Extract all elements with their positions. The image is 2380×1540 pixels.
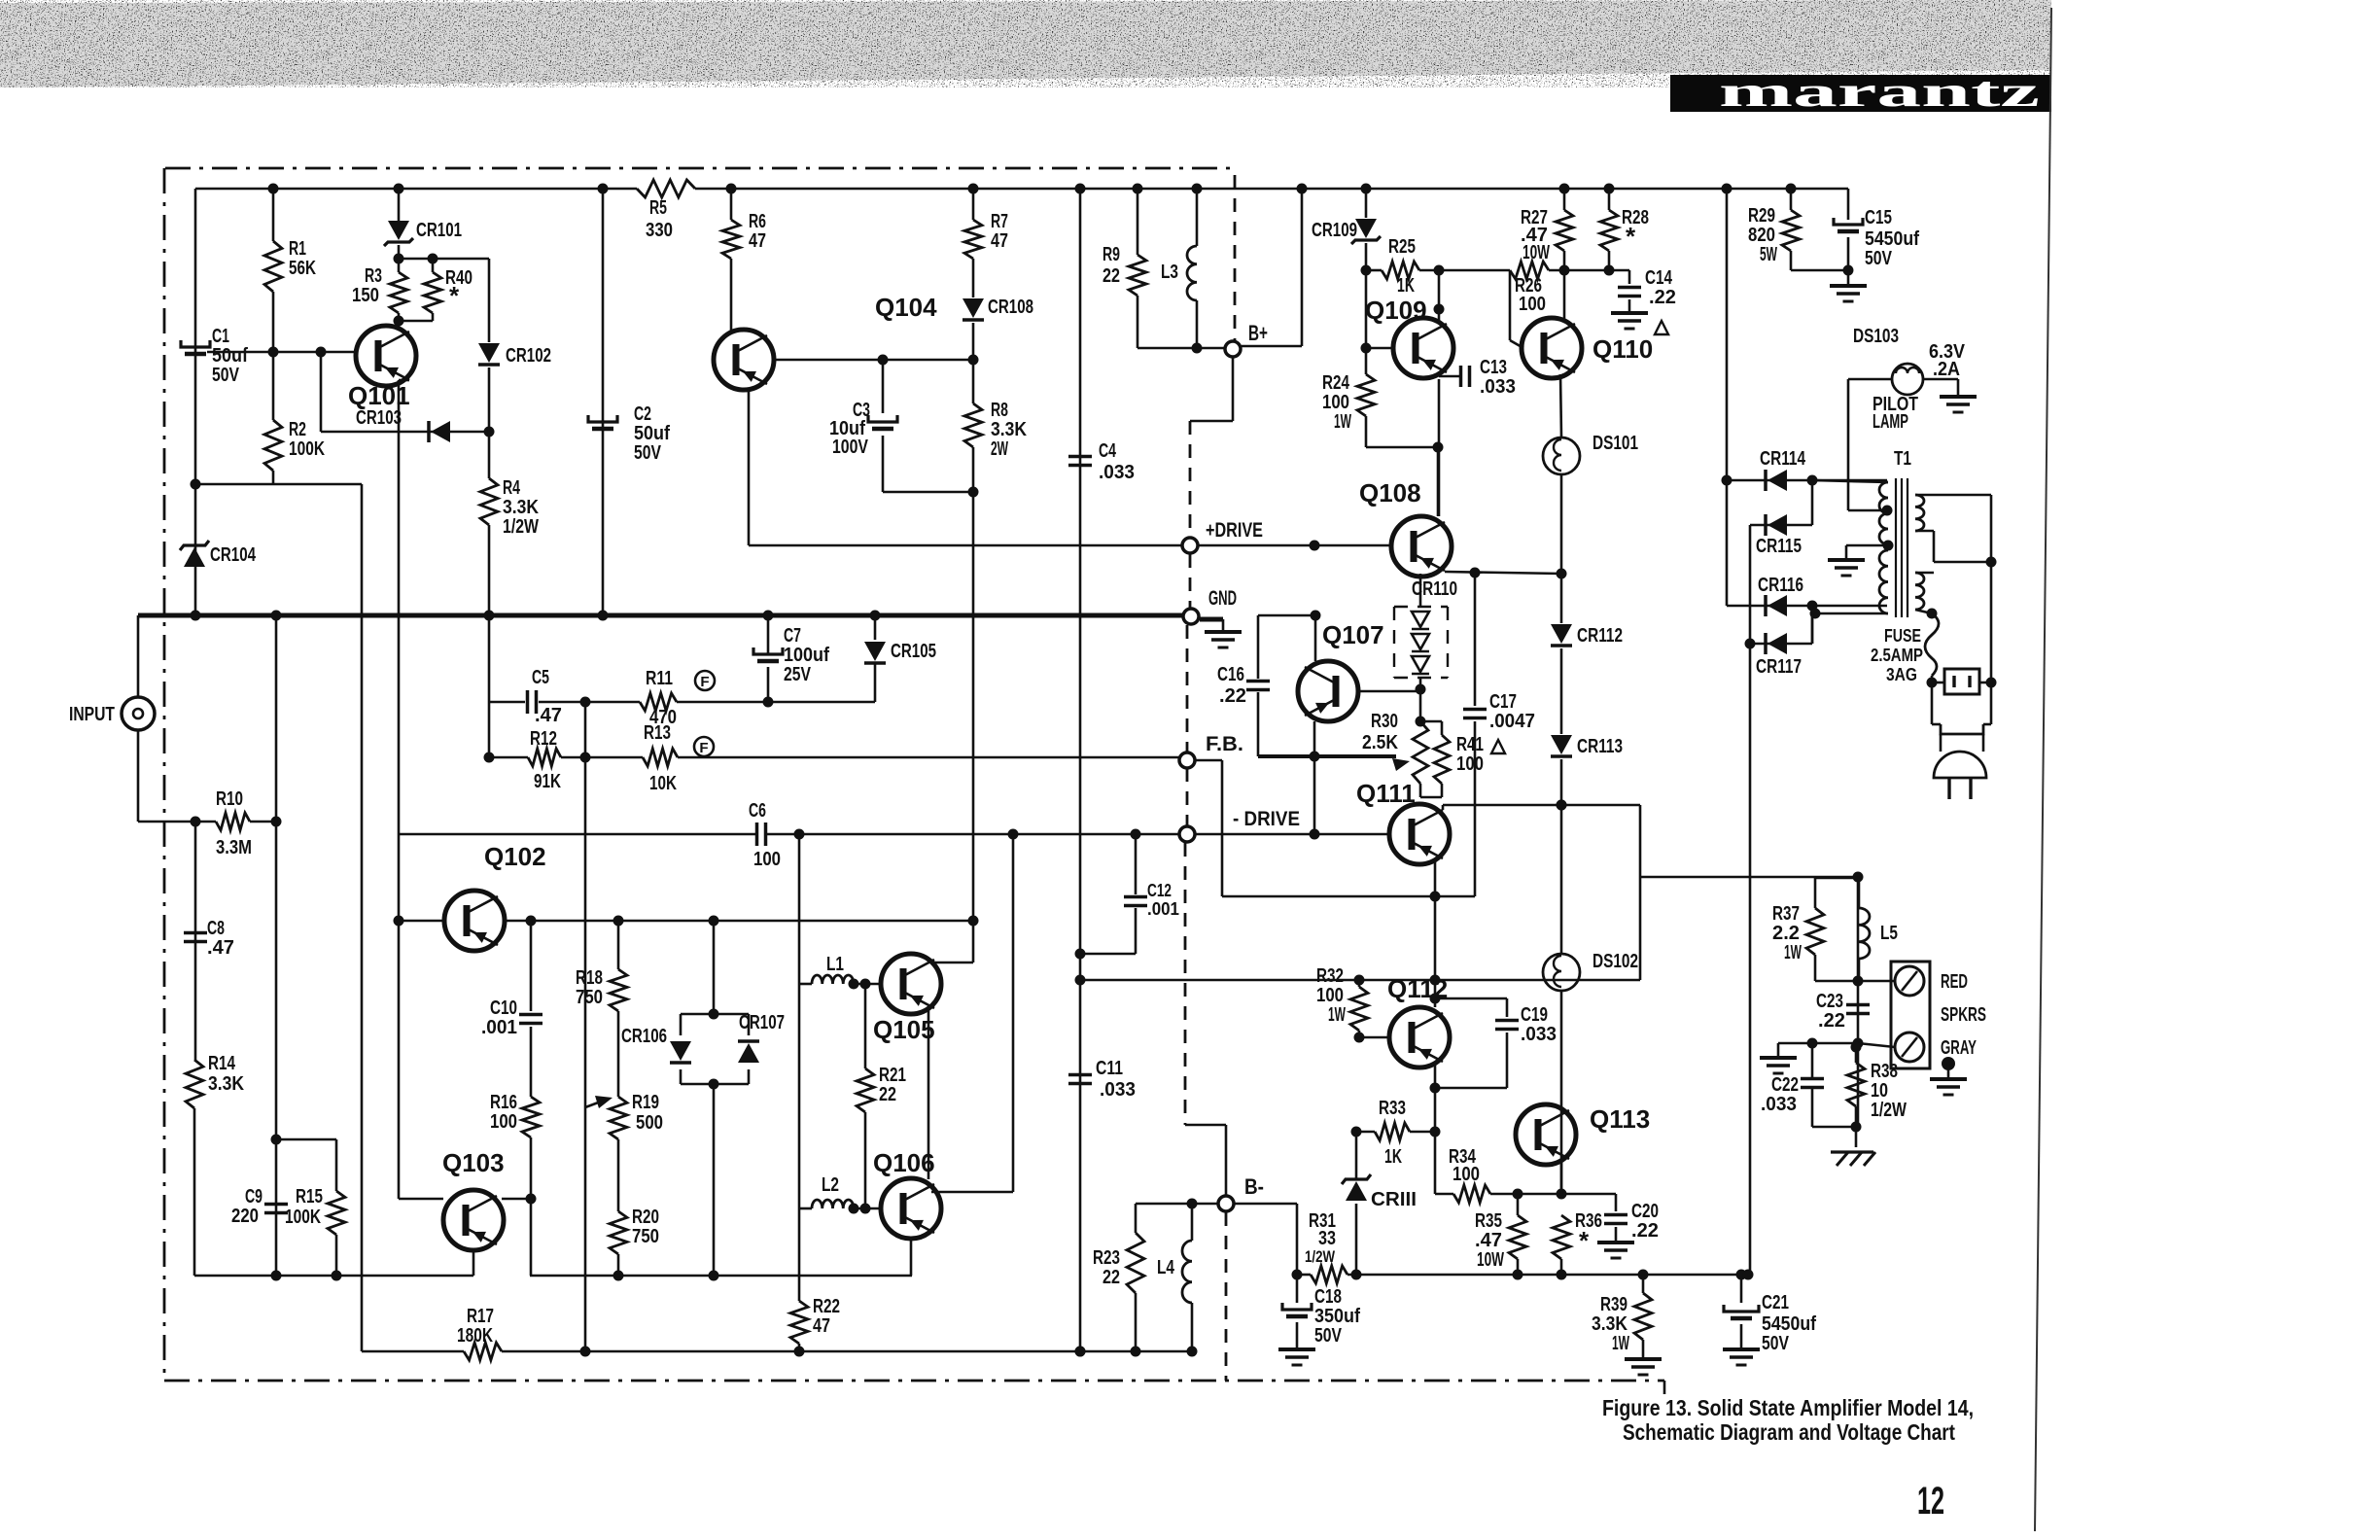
svg-text:C19: C19 (1521, 1004, 1548, 1026)
svg-text:FUSE: FUSE (1884, 626, 1921, 646)
svg-text:C9: C9 (245, 1186, 262, 1207)
svg-text:.033: .033 (1761, 1094, 1797, 1115)
svg-text:CR116: CR116 (1758, 575, 1803, 596)
svg-text:.22: .22 (1818, 1010, 1845, 1032)
svg-text:100K: 100K (289, 438, 325, 460)
svg-text:100uf: 100uf (784, 645, 829, 666)
svg-text:L5: L5 (1880, 923, 1898, 944)
svg-text:C10: C10 (490, 997, 517, 1019)
svg-text:*: * (449, 281, 460, 310)
svg-text:Q104: Q104 (875, 293, 937, 322)
svg-text:F: F (699, 740, 708, 756)
svg-text:12: 12 (1917, 1480, 1944, 1522)
svg-text:R38: R38 (1871, 1061, 1898, 1082)
svg-text:L3: L3 (1161, 262, 1178, 283)
svg-text:CRIII: CRIII (1371, 1189, 1417, 1210)
svg-text:C2: C2 (634, 403, 651, 425)
svg-text:.47: .47 (207, 937, 234, 959)
svg-text:2.2: 2.2 (1772, 923, 1800, 944)
svg-text:1W: 1W (1334, 411, 1351, 433)
svg-text:C16: C16 (1217, 664, 1244, 685)
svg-text:R30: R30 (1371, 711, 1398, 732)
svg-text:CR113: CR113 (1577, 736, 1623, 757)
svg-text:*: * (1626, 222, 1636, 251)
svg-text:.0047: .0047 (1489, 711, 1535, 732)
svg-text:DS101: DS101 (1592, 433, 1638, 454)
svg-text:.47: .47 (535, 705, 562, 726)
svg-text:2.5AMP: 2.5AMP (1871, 646, 1923, 665)
svg-text:INPUT: INPUT (69, 704, 115, 725)
svg-text:R3: R3 (365, 265, 382, 287)
svg-text:- DRIVE: - DRIVE (1233, 808, 1300, 830)
svg-text:750: 750 (576, 987, 603, 1008)
svg-text:CR112: CR112 (1577, 625, 1623, 647)
svg-text:CR114: CR114 (1760, 448, 1806, 470)
svg-text:100: 100 (1519, 294, 1546, 315)
svg-text:5450uf: 5450uf (1865, 228, 1919, 250)
svg-text:R24: R24 (1322, 372, 1350, 394)
svg-text:R35: R35 (1475, 1210, 1502, 1232)
svg-text:10K: 10K (649, 773, 677, 794)
svg-text:50uf: 50uf (212, 345, 248, 367)
svg-text:.001: .001 (481, 1017, 517, 1038)
svg-text:R2: R2 (289, 419, 306, 440)
svg-text:R25: R25 (1388, 236, 1416, 258)
svg-text:R16: R16 (490, 1092, 517, 1113)
svg-text:R7: R7 (991, 211, 1008, 232)
svg-text:150: 150 (352, 285, 379, 306)
svg-text:R8: R8 (991, 400, 1008, 421)
svg-text:Q106: Q106 (873, 1148, 935, 1177)
svg-text:R39: R39 (1600, 1294, 1627, 1315)
svg-text:R4: R4 (503, 477, 521, 499)
svg-text:100: 100 (1322, 392, 1349, 413)
svg-text:R15: R15 (296, 1186, 323, 1207)
svg-text:330: 330 (646, 220, 673, 241)
svg-text:10W: 10W (1477, 1249, 1504, 1271)
svg-text:3.3K: 3.3K (991, 419, 1027, 440)
svg-text:GRAY: GRAY (1941, 1037, 1977, 1059)
svg-text:.033: .033 (1099, 462, 1135, 483)
svg-text:R32: R32 (1316, 965, 1344, 987)
svg-text:C18: C18 (1314, 1286, 1342, 1308)
svg-text:R12: R12 (530, 728, 557, 750)
svg-text:CR115: CR115 (1756, 536, 1802, 557)
svg-text:Q110: Q110 (1592, 334, 1653, 364)
svg-text:R1: R1 (289, 238, 306, 260)
svg-text:C11: C11 (1096, 1058, 1123, 1079)
svg-text:3.3M: 3.3M (216, 837, 252, 858)
svg-text:.2A: .2A (1933, 359, 1960, 380)
svg-text:.033: .033 (1521, 1024, 1557, 1045)
svg-text:L1: L1 (826, 954, 844, 975)
svg-text:50V: 50V (1865, 248, 1893, 269)
svg-text:B-: B- (1244, 1174, 1264, 1199)
svg-text:10: 10 (1871, 1080, 1888, 1102)
svg-text:C6: C6 (749, 800, 766, 822)
svg-text:50uf: 50uf (634, 423, 670, 444)
svg-text:F.B.: F.B. (1206, 733, 1243, 755)
svg-text:marantz: marantz (1719, 68, 2040, 116)
svg-text:22: 22 (1102, 1267, 1120, 1288)
svg-text:C17: C17 (1489, 691, 1517, 713)
svg-text:820: 820 (1748, 225, 1775, 246)
svg-text:1/2W: 1/2W (1305, 1247, 1336, 1266)
svg-text:1W: 1W (1328, 1004, 1346, 1026)
svg-text:1K: 1K (1384, 1146, 1402, 1168)
svg-text:56K: 56K (289, 258, 316, 279)
svg-text:50V: 50V (212, 365, 240, 386)
svg-text:50V: 50V (634, 442, 662, 464)
svg-text:CR108: CR108 (988, 297, 1033, 318)
svg-text:100: 100 (1316, 985, 1344, 1006)
svg-text:C14: C14 (1645, 267, 1673, 289)
svg-text:C20: C20 (1631, 1201, 1659, 1222)
svg-text:R18: R18 (576, 967, 603, 989)
svg-text:100: 100 (1456, 753, 1484, 775)
svg-text:C21: C21 (1762, 1292, 1789, 1313)
svg-text:C4: C4 (1099, 440, 1117, 462)
svg-text:CR106: CR106 (621, 1026, 667, 1047)
svg-text:R37: R37 (1772, 903, 1800, 925)
svg-text:C12: C12 (1147, 881, 1172, 900)
svg-text:2W: 2W (991, 438, 1008, 460)
svg-text:R6: R6 (749, 211, 766, 232)
svg-text:R14: R14 (208, 1053, 236, 1074)
svg-text:220: 220 (231, 1206, 259, 1227)
svg-text:C7: C7 (784, 625, 801, 647)
svg-text:C13: C13 (1480, 357, 1507, 378)
svg-text:R21: R21 (879, 1065, 906, 1086)
svg-text:3.3K: 3.3K (1592, 1313, 1627, 1335)
svg-text:RED: RED (1941, 971, 1968, 993)
svg-text:CR104: CR104 (210, 544, 257, 566)
svg-text:GND: GND (1208, 587, 1237, 610)
svg-text:Q101: Q101 (348, 381, 410, 410)
svg-text:91K: 91K (534, 771, 561, 792)
svg-text:.033: .033 (1100, 1079, 1136, 1101)
svg-text:F: F (700, 674, 709, 690)
svg-text:C8: C8 (207, 918, 225, 939)
svg-text:750: 750 (632, 1226, 659, 1247)
svg-text:R10: R10 (216, 788, 243, 810)
svg-text:Q108: Q108 (1359, 478, 1421, 507)
svg-text:22: 22 (1102, 265, 1120, 287)
svg-text:47: 47 (749, 230, 766, 252)
svg-text:LAMP: LAMP (1872, 411, 1908, 433)
svg-text:R9: R9 (1102, 244, 1120, 265)
svg-text:Q105: Q105 (873, 1015, 935, 1044)
svg-text:C1: C1 (212, 326, 229, 347)
svg-text:Schematic Diagram and Voltage: Schematic Diagram and Voltage Chart (1623, 1419, 1955, 1445)
svg-text:1/2W: 1/2W (1871, 1100, 1907, 1121)
svg-text:.001: .001 (1147, 899, 1179, 919)
svg-text:5450uf: 5450uf (1762, 1313, 1816, 1335)
svg-text:2.5K: 2.5K (1362, 732, 1398, 753)
svg-text:3.3K: 3.3K (208, 1073, 244, 1095)
svg-text:1/2W: 1/2W (503, 516, 539, 538)
svg-text:CR110: CR110 (1412, 578, 1457, 600)
svg-text:3.3K: 3.3K (503, 497, 539, 518)
svg-text:47: 47 (813, 1315, 830, 1337)
svg-text:L2: L2 (822, 1174, 839, 1196)
svg-text:R19: R19 (632, 1092, 659, 1113)
svg-text:R11: R11 (646, 668, 673, 689)
svg-text:*: * (1579, 1226, 1590, 1255)
svg-text:5W: 5W (1760, 244, 1777, 265)
svg-text:L4: L4 (1157, 1257, 1175, 1278)
svg-text:+DRIVE: +DRIVE (1206, 519, 1263, 542)
svg-text:100: 100 (753, 849, 781, 870)
svg-text:33: 33 (1318, 1228, 1336, 1249)
svg-text:R17: R17 (467, 1306, 494, 1327)
svg-text:100: 100 (490, 1111, 517, 1133)
svg-text:DS103: DS103 (1853, 326, 1899, 347)
svg-text:100: 100 (1452, 1164, 1480, 1185)
svg-text:B+: B+ (1248, 321, 1268, 345)
svg-text:R20: R20 (632, 1207, 659, 1228)
svg-text:100V: 100V (832, 437, 869, 458)
svg-text:1W: 1W (1612, 1333, 1629, 1354)
svg-text:CR109: CR109 (1312, 220, 1357, 241)
svg-text:CR117: CR117 (1756, 656, 1802, 678)
svg-text:CR103: CR103 (356, 407, 402, 429)
svg-text:R13: R13 (644, 722, 671, 744)
svg-text:Q109: Q109 (1365, 296, 1427, 325)
svg-text:25V: 25V (784, 664, 812, 685)
svg-text:C15: C15 (1865, 207, 1892, 228)
svg-text:CR107: CR107 (739, 1012, 785, 1033)
svg-text:3AG: 3AG (1886, 665, 1917, 684)
svg-text:C22: C22 (1771, 1074, 1799, 1096)
svg-text:R33: R33 (1379, 1098, 1406, 1119)
svg-text:10W: 10W (1522, 242, 1550, 263)
svg-text:100K: 100K (285, 1207, 321, 1228)
svg-text:Q107: Q107 (1322, 620, 1384, 649)
svg-text:R23: R23 (1093, 1247, 1120, 1269)
svg-text:1W: 1W (1784, 942, 1802, 963)
svg-text:R5: R5 (649, 197, 667, 219)
svg-text:22: 22 (879, 1084, 896, 1105)
svg-text:R29: R29 (1748, 205, 1775, 227)
svg-text:.22: .22 (1219, 685, 1246, 707)
svg-text:R41: R41 (1456, 734, 1484, 755)
svg-text:50V: 50V (1762, 1333, 1790, 1354)
svg-text:Q103: Q103 (442, 1148, 505, 1177)
svg-text:R22: R22 (813, 1296, 840, 1317)
svg-text:Figure 13. Solid State Amplif: Figure 13. Solid State Amplifier Model 1… (1602, 1395, 1974, 1420)
svg-text:.22: .22 (1631, 1220, 1659, 1242)
svg-text:SPKRS: SPKRS (1941, 1004, 1986, 1026)
svg-text:Q102: Q102 (484, 842, 546, 871)
svg-text:180K: 180K (457, 1325, 493, 1347)
svg-text:.033: .033 (1480, 376, 1516, 398)
svg-text:500: 500 (636, 1112, 663, 1134)
svg-text:Q111: Q111 (1356, 779, 1416, 808)
svg-text:C5: C5 (532, 667, 549, 688)
svg-text:350uf: 350uf (1314, 1306, 1360, 1327)
svg-text:CR105: CR105 (891, 641, 936, 662)
svg-text:.22: .22 (1649, 287, 1676, 308)
svg-text:DS102: DS102 (1592, 951, 1638, 972)
svg-text:50V: 50V (1314, 1325, 1343, 1347)
svg-text:1K: 1K (1397, 275, 1415, 297)
svg-text:T1: T1 (1894, 448, 1911, 470)
svg-text:CR101: CR101 (416, 220, 462, 241)
svg-text:Q113: Q113 (1590, 1104, 1650, 1134)
svg-text:47: 47 (991, 230, 1008, 252)
svg-text:CR102: CR102 (506, 345, 551, 367)
svg-text:C23: C23 (1816, 991, 1843, 1012)
svg-text:.47: .47 (1475, 1230, 1502, 1251)
